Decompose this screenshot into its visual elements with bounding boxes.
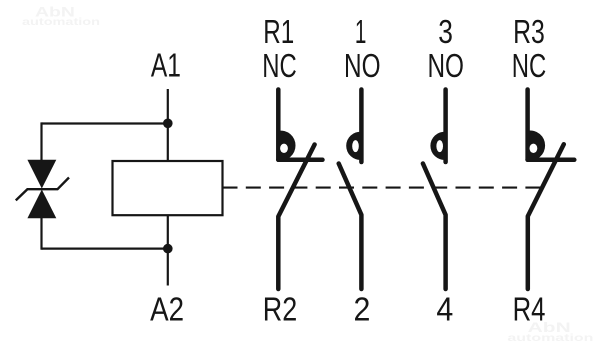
- NO contact 3-4 fixed terminal: [443, 90, 448, 163]
- wire bottom branch to junction: [42, 248, 168, 250]
- svg-text:A1: A1: [151, 47, 181, 85]
- NC contact R3-R4 moving contact and wire to R4: [528, 144, 564, 289]
- svg-text:1: 1: [355, 13, 367, 50]
- svg-text:NO: NO: [344, 48, 381, 85]
- wire top branch to suppressor: [42, 122, 168, 124]
- junction dot bottom: [163, 244, 173, 254]
- NC contact R1-R2 fixed terminal: [278, 90, 322, 160]
- svg-text:automation: automation: [507, 332, 593, 344]
- svg-text:NO: NO: [427, 48, 464, 85]
- wire suppressor bottom lead: [40, 218, 42, 250]
- svg-text:R2: R2: [263, 292, 297, 328]
- wire suppressor top lead: [40, 122, 42, 161]
- wire A1 to coil: [167, 89, 169, 161]
- svg-text:4: 4: [436, 290, 453, 328]
- svg-text:3: 3: [438, 14, 453, 51]
- svg-text:NC: NC: [512, 48, 546, 85]
- NO contact 1-2 fixed terminal: [359, 90, 364, 163]
- junction dot top: [163, 119, 173, 129]
- svg-text:R4: R4: [513, 292, 546, 329]
- svg-text:R3: R3: [513, 13, 545, 50]
- svg-text:NC: NC: [262, 48, 296, 85]
- NO contact 3-4 moving contact and wire to 4: [423, 164, 446, 290]
- svg-text:automation: automation: [22, 16, 100, 28]
- wire coil to A2: [167, 215, 169, 285]
- mechanical linkage (dashed): [223, 187, 542, 189]
- svg-text:2: 2: [353, 290, 370, 328]
- svg-text:A2: A2: [150, 290, 184, 328]
- NO contact 1-2 moving contact and wire to 2: [339, 164, 362, 290]
- NC contact R1-R2 moving contact and wire to R2: [278, 145, 314, 290]
- NC contact R3-R4 fixed terminal: [528, 90, 575, 160]
- svg-text:R1: R1: [263, 14, 294, 51]
- coil K1: [113, 161, 223, 215]
- suppressor diode (bidirectional): [16, 160, 69, 219]
